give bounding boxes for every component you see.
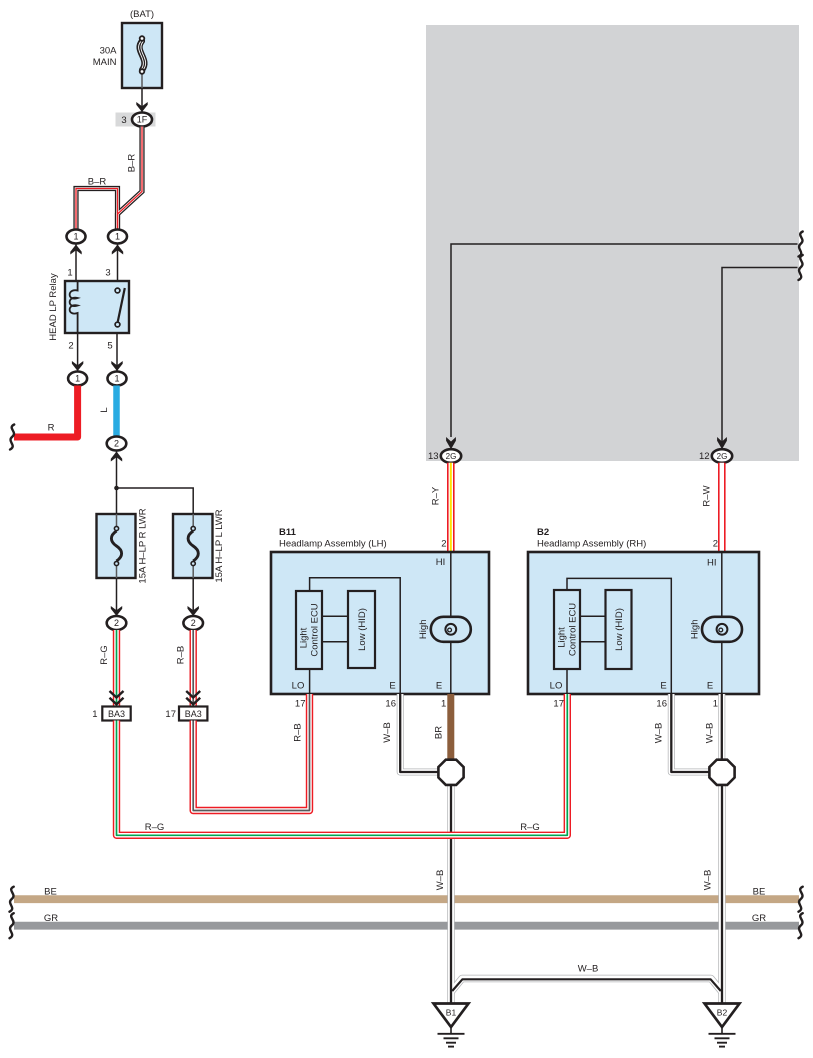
arrow down (111, 606, 122, 616)
connector 1 (below pin 5) (108, 372, 127, 386)
svg-text:13: 13 (428, 451, 439, 462)
svg-text:W–B: W–B (704, 723, 715, 744)
svg-text:R–G: R–G (520, 822, 540, 833)
svg-text:R–B: R–B (293, 723, 304, 741)
connector BA3 pin 1 (92, 707, 130, 721)
svg-text:W–B: W–B (703, 870, 714, 891)
connector 2 (right) (183, 616, 203, 630)
svg-text:1: 1 (114, 374, 119, 384)
wire W-B ground runs (left vertical, right vertical, bridge) (451, 785, 722, 1004)
svg-text:2: 2 (191, 618, 196, 628)
wire R-B (fuse to BA3 pin 17) (189, 630, 196, 707)
svg-text:MAIN: MAIN (93, 57, 117, 68)
wire inside ECU to 2G pin 13 (451, 244, 798, 437)
fuse 30A MAIN (122, 23, 162, 88)
svg-text:15A H–LP L LWR: 15A H–LP L LWR (214, 509, 225, 582)
B2 High bulb (702, 617, 742, 642)
svg-text:BA3: BA3 (108, 709, 125, 719)
svg-text:17: 17 (295, 698, 306, 709)
svg-text:17: 17 (165, 709, 176, 720)
wire R-G (BA3 1 to B2 LO) (117, 694, 568, 835)
wire BR (B11 pin 1 to joint) (447, 694, 454, 761)
svg-text:(BAT): (BAT) (130, 9, 154, 20)
wire relay pin 5 down (116, 333, 118, 371)
svg-text:3: 3 (121, 115, 126, 126)
svg-text:B2: B2 (717, 1008, 728, 1018)
B2 LO wire (566, 669, 568, 694)
wire branch to left fuse (117, 488, 194, 514)
break symbol right end (top wire) (799, 232, 803, 257)
break symbol BE left (10, 887, 14, 912)
arrow down into connector (72, 361, 83, 371)
chevron arrow into BA3 (right) (186, 691, 200, 704)
svg-text:LO: LO (550, 681, 563, 692)
arrow into 1F (136, 102, 147, 112)
break symbol BE right (799, 887, 803, 912)
relay HEAD LP Relay (65, 281, 129, 333)
B11 ECU-HID link wires (322, 615, 348, 617)
svg-text:R: R (48, 423, 55, 434)
connector 1 (below pin 2) (68, 372, 87, 386)
svg-text:3: 3 (105, 268, 110, 279)
svg-text:HI: HI (436, 557, 446, 568)
svg-text:W–B: W–B (654, 723, 665, 744)
fuse 15A H-LP L LWR (173, 514, 213, 578)
svg-text:Low (HID): Low (HID) (614, 608, 625, 651)
B2 Light Control ECU box (554, 590, 580, 669)
svg-text:1: 1 (75, 374, 80, 384)
svg-text:E: E (436, 681, 442, 692)
svg-text:BE: BE (44, 886, 57, 897)
svg-text:2: 2 (713, 539, 718, 550)
svg-text:1: 1 (67, 268, 72, 279)
wire from connector 2 to fuses (116, 451, 118, 515)
svg-text:BR: BR (434, 726, 445, 739)
svg-text:HEAD LP Relay: HEAD LP Relay (48, 273, 59, 341)
ground point B1 (434, 1004, 469, 1047)
svg-text:Low (HID): Low (HID) (357, 608, 368, 651)
ECU gray box (body ECU) (426, 25, 799, 461)
chevron arrow into BA3 (left) (110, 691, 124, 704)
svg-text:12: 12 (699, 451, 710, 462)
junction node (114, 486, 119, 491)
connector 2G pin 13 (441, 449, 461, 463)
svg-text:High: High (418, 620, 429, 640)
svg-text:R–B: R–B (176, 646, 187, 664)
B11 High bulb (431, 617, 471, 642)
svg-text:2G: 2G (446, 452, 457, 461)
break symbol GR left (10, 913, 14, 938)
svg-text:BA3: BA3 (185, 709, 202, 719)
ground joint octagon (right) (709, 760, 734, 785)
svg-text:2: 2 (441, 539, 446, 550)
svg-text:2: 2 (114, 439, 119, 449)
connector 1 (relay pin 1) (67, 230, 86, 244)
break symbol left of wire R (10, 425, 14, 450)
svg-text:Headlamp Assembly (RH): Headlamp Assembly (RH) (537, 539, 646, 550)
svg-text:R–W: R–W (702, 485, 713, 506)
svg-text:GR: GR (44, 913, 58, 924)
B2 HI wire (721, 552, 723, 694)
wire fuse to connector 1F (141, 88, 143, 113)
B11 LO wire (309, 669, 311, 694)
B11 Low (HID) box (348, 591, 375, 668)
svg-text:2G: 2G (717, 452, 728, 461)
svg-text:LO: LO (292, 681, 305, 692)
svg-text:L: L (99, 407, 110, 412)
ground point B2 (705, 1004, 740, 1047)
arrow into 2G (12) (717, 437, 727, 449)
svg-text:B11: B11 (279, 527, 297, 538)
connector 1 (relay pin 3) (108, 230, 127, 244)
svg-text:5: 5 (107, 341, 112, 352)
svg-text:1: 1 (713, 698, 718, 709)
svg-text:W–B: W–B (382, 722, 393, 743)
svg-text:BE: BE (753, 886, 766, 897)
connector 2G pin 12 (712, 449, 732, 463)
svg-text:R–G: R–G (145, 822, 165, 833)
svg-text:R–G: R–G (99, 645, 110, 665)
svg-text:E: E (707, 681, 713, 692)
svg-text:1: 1 (115, 232, 120, 242)
arrow down into connector (111, 361, 122, 371)
connector 2 (107, 437, 127, 451)
svg-text:R–Y: R–Y (431, 486, 442, 505)
svg-text:17: 17 (553, 698, 564, 709)
arrow up into connector 2 (111, 452, 122, 462)
wire relay pin 2 down (77, 333, 79, 371)
svg-text:B–R: B–R (88, 177, 107, 188)
svg-text:16: 16 (385, 698, 396, 709)
arrow into 2G (13) (446, 437, 456, 449)
wire W-B (B2 pin 16 to joint) (671, 694, 710, 772)
wire to relay pin 1 (75, 244, 77, 282)
wire inside ECU to 2G pin 12 (722, 268, 798, 444)
svg-text:Headlamp Assembly (LH): Headlamp Assembly (LH) (279, 539, 387, 550)
wire R-W (2G to B2 HI) (718, 463, 726, 552)
wire below left fuse (116, 578, 118, 616)
headlamp assembly B2 (RH) (528, 552, 759, 694)
svg-text:1: 1 (92, 709, 97, 720)
svg-text:16: 16 (656, 698, 667, 709)
break symbol right end (bottom wire) (799, 255, 803, 280)
B11 internal wire ECU to E pin 16 (310, 578, 401, 694)
svg-text:HI: HI (707, 558, 717, 569)
svg-text:2: 2 (68, 341, 73, 352)
wire L (thick blue) (113, 386, 120, 438)
relay switch (118, 288, 125, 322)
svg-text:1: 1 (441, 698, 446, 709)
svg-text:1F: 1F (137, 115, 148, 125)
svg-text:2: 2 (114, 618, 119, 628)
svg-text:High: High (689, 620, 700, 640)
svg-text:GR: GR (752, 913, 766, 924)
wire below right fuse (192, 578, 194, 616)
arrow down (188, 606, 199, 616)
ground joint octagon (left) (438, 760, 463, 785)
svg-text:W–B: W–B (578, 964, 599, 975)
wire R (thick red) (14, 386, 78, 438)
svg-text:B–R: B–R (127, 154, 138, 173)
relay coil (70, 281, 78, 333)
break symbol GR right (799, 913, 803, 938)
svg-text:W–B: W–B (435, 870, 446, 891)
wire R-B (BA3 17 to B11 LO) (193, 694, 309, 811)
arrow up into connector 1 (70, 245, 81, 255)
connector 2 (left) (107, 616, 127, 630)
wire R-G (fuse to BA3 pin 1) (113, 630, 120, 707)
bus wire GR (14, 922, 799, 930)
B2 internal wire ECU to E pin 16 (567, 578, 671, 694)
wire B-R from 1F to relay connectors (76, 127, 142, 231)
wire W-B (B2 pin 1 to joint) (718, 694, 725, 760)
B11 HI wire (450, 552, 452, 694)
arrow up into connector 1 (112, 245, 123, 255)
svg-text:B2: B2 (537, 527, 549, 538)
wire to relay pin 3 (117, 244, 119, 282)
B11 Light Control ECU box (296, 591, 322, 669)
B2 Low (HID) box (606, 590, 632, 669)
connector BA3 pin 17 (165, 707, 207, 721)
wire W-B (B11 pin 16 to joint) (400, 694, 439, 772)
svg-text:B1: B1 (446, 1008, 457, 1018)
svg-text:30A: 30A (100, 46, 118, 57)
svg-text:15A H–LP R LWR: 15A H–LP R LWR (138, 508, 149, 583)
wire R-Y (2G to B11 HI) (447, 463, 455, 552)
svg-text:E: E (660, 681, 666, 692)
bus wire BE (14, 895, 799, 903)
B2 ECU-HID link wires (580, 615, 606, 617)
connector 1F pin 3 (116, 113, 156, 127)
svg-text:E: E (389, 681, 395, 692)
fuse 15A H-LP R LWR (97, 514, 136, 578)
svg-text:1: 1 (73, 232, 78, 242)
headlamp assembly B11 (LH) (271, 552, 489, 694)
